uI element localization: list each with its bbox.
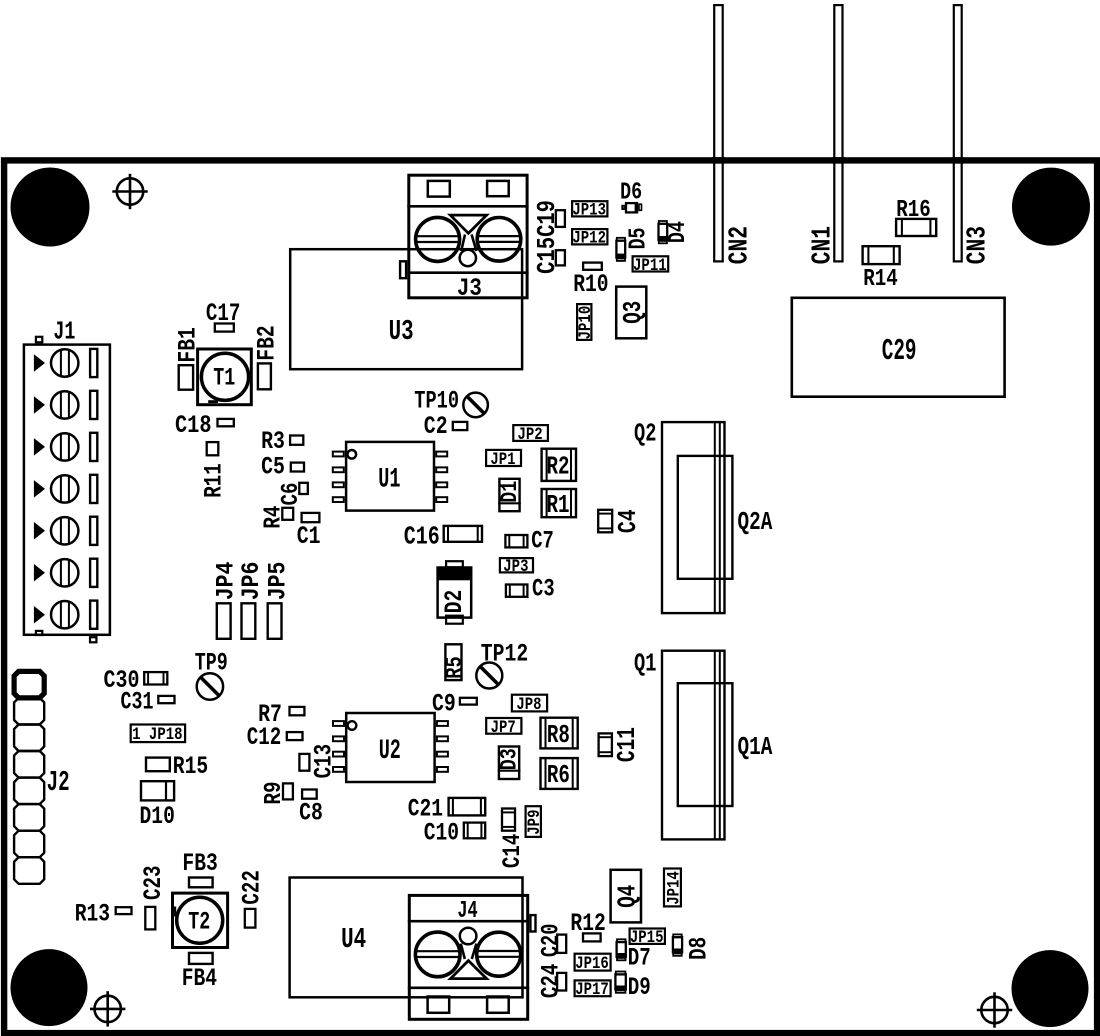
svg-text:Q3: Q3 [618,301,648,324]
svg-text:T2: T2 [188,908,210,937]
svg-text:D7: D7 [628,943,651,972]
svg-text:CN3: CN3 [963,226,993,264]
svg-text:R2: R2 [547,452,570,482]
svg-text:D8: D8 [684,937,713,960]
svg-text:JP17: JP17 [575,980,609,1000]
svg-text:Q1A: Q1A [738,732,773,762]
svg-text:CN2: CN2 [726,226,756,264]
svg-text:D1: D1 [498,481,523,503]
svg-text:U1: U1 [378,464,400,496]
svg-text:R6: R6 [547,761,570,791]
svg-text:T1: T1 [213,364,235,393]
svg-text:JP2: JP2 [517,425,542,445]
svg-text:JP4: JP4 [213,562,241,601]
svg-text:JP9: JP9 [525,810,545,835]
svg-text:R10: R10 [573,270,608,299]
svg-text:JP6: JP6 [239,562,267,601]
svg-text:J1: J1 [53,317,75,347]
svg-text:C11: C11 [612,727,641,762]
svg-text:R8: R8 [547,720,570,750]
svg-text:Q1: Q1 [634,648,656,678]
svg-text:U4: U4 [341,923,366,956]
svg-text:TP12: TP12 [481,639,528,668]
svg-text:C1: C1 [297,522,321,551]
svg-text:C5: C5 [261,452,285,481]
svg-text:C12: C12 [247,723,281,752]
svg-text:JP13: JP13 [572,200,606,220]
svg-text:C7: C7 [531,527,554,555]
svg-text:U3: U3 [389,315,414,348]
svg-text:J4: J4 [457,898,477,924]
svg-text:J3: J3 [457,274,482,302]
svg-text:JP8: JP8 [516,695,541,715]
svg-text:C22: C22 [237,870,266,904]
svg-text:U2: U2 [379,735,401,767]
svg-text:FB3: FB3 [182,849,217,878]
svg-text:C10: C10 [424,818,459,847]
svg-text:C14: C14 [497,834,526,868]
svg-text:R15: R15 [173,752,208,781]
svg-text:C9: C9 [432,689,456,718]
svg-text:D5: D5 [625,227,652,249]
svg-text:JP3: JP3 [503,557,528,577]
svg-text:JP11: JP11 [633,255,667,275]
svg-text:R5: R5 [443,656,468,678]
svg-text:JP14: JP14 [664,871,684,905]
svg-text:R1: R1 [547,490,570,520]
svg-text:C8: C8 [299,798,323,827]
svg-text:C23: C23 [138,865,167,899]
svg-text:C16: C16 [404,522,440,551]
svg-text:D3: D3 [498,748,523,770]
svg-text:C3: C3 [532,575,555,603]
svg-text:R11: R11 [199,463,228,497]
svg-text:JP10: JP10 [576,306,596,340]
svg-text:C18: C18 [175,411,212,440]
svg-text:C13: C13 [309,744,338,778]
svg-text:1 JP18: 1 JP18 [132,725,182,745]
svg-text:Q2: Q2 [634,419,656,449]
svg-text:D2: D2 [440,590,469,614]
svg-text:R13: R13 [75,900,110,929]
svg-text:D10: D10 [140,802,175,831]
svg-text:C4: C4 [614,509,643,533]
svg-text:JP5: JP5 [265,562,293,601]
svg-text:JP16: JP16 [575,954,609,974]
svg-text:JP1: JP1 [490,449,515,469]
svg-text:C29: C29 [882,334,917,369]
svg-text:R14: R14 [863,265,897,293]
svg-text:FB4: FB4 [182,964,217,993]
svg-text:FB2: FB2 [252,325,281,360]
svg-text:JP7: JP7 [491,717,516,737]
svg-text:Q2A: Q2A [738,507,773,537]
svg-text:C2: C2 [424,412,448,441]
svg-text:D9: D9 [628,972,651,1001]
svg-text:C24: C24 [536,964,565,998]
svg-text:CN1: CN1 [808,226,838,264]
svg-text:J2: J2 [47,767,70,800]
svg-text:D4: D4 [665,221,692,243]
svg-text:JP12: JP12 [572,228,606,248]
svg-text:Q4: Q4 [613,885,643,908]
svg-text:C31: C31 [120,688,153,717]
